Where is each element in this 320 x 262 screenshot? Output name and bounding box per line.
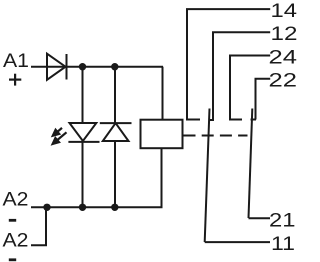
contact arm switch 1	[205, 109, 210, 243]
LED V1	[68, 123, 99, 142]
wire coil bottom to A2 rail	[161, 148, 163, 207]
diode D2 suppressor	[100, 123, 132, 141]
wire terminal 12	[213, 32, 270, 120]
svg-text:A2: A2	[3, 231, 29, 252]
wire terminal 21	[249, 217, 271, 219]
contact 14 fixed foot	[186, 119, 200, 121]
svg-text:14: 14	[271, 1, 298, 22]
contact 24 fixed foot	[229, 119, 242, 121]
wire terminal 11	[205, 241, 270, 243]
svg-text:21: 21	[269, 210, 296, 231]
node junction dot 1 (LED branch)	[79, 63, 86, 70]
contact arm switch 2	[249, 109, 253, 219]
wire LED branch lower	[82, 142, 84, 207]
wire A2 bottom rail	[31, 206, 163, 208]
node junction dot diode bottom	[111, 204, 118, 211]
svg-text:A2: A2	[3, 190, 29, 211]
LED emission arrows	[53, 128, 67, 144]
svg-text:22: 22	[269, 71, 298, 92]
wire terminal 14	[187, 9, 270, 118]
node junction dot 2 (diode branch)	[111, 63, 118, 70]
relay coil K1	[141, 120, 183, 149]
diode D1 series	[47, 54, 67, 80]
svg-text:12: 12	[271, 24, 298, 45]
svg-text:11: 11	[271, 234, 295, 255]
node junction dot A2 branch	[43, 204, 50, 211]
wire terminal 22	[256, 79, 271, 120]
wire corner down to coil top	[162, 67, 164, 121]
node A2 minus polarity lower	[9, 258, 16, 261]
node A2 minus polarity upper	[9, 219, 16, 222]
node junction dot LED bottom	[79, 204, 86, 211]
svg-text:24: 24	[269, 47, 298, 68]
wire LED branch upper	[82, 67, 84, 123]
wire diode branch lower	[114, 141, 116, 207]
svg-text:A1: A1	[3, 51, 29, 72]
node A1 plus polarity	[9, 74, 21, 86]
wire A2 lower jumper	[31, 207, 46, 245]
contact 12 fixed tick	[209, 119, 214, 121]
wire diode branch upper	[114, 67, 116, 123]
wire terminal 24	[230, 56, 270, 119]
wire A1 to coil top corner	[31, 66, 163, 68]
contact 22 fixed tick	[251, 119, 257, 121]
mechanical link dashed	[184, 135, 248, 137]
